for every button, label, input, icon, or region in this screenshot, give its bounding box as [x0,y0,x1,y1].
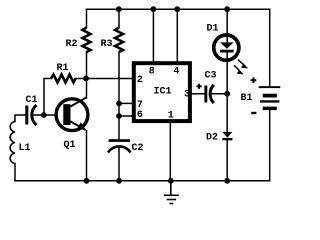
svg-text:C1: C1 [26,95,38,106]
wire Q1 emitter down [86,131,88,181]
node rail D2 [224,178,230,184]
wire node A up to R1 [44,79,51,116]
svg-text:3: 3 [184,90,190,101]
wire pin8 [152,9,154,61]
wire L1 bottom to rail corner [14,164,16,181]
wire C1 to node A [33,114,55,116]
wire R1 right to node B [76,78,132,80]
node top R3 [116,6,122,12]
resistor R1 [51,75,76,83]
resistor R3 [115,28,123,53]
svg-text:Q1: Q1 [64,140,76,151]
node pin7 [116,101,122,107]
node dots [41,6,230,183]
node B R1/R2/Q1 [83,76,89,82]
svg-text:C2: C2 [132,143,144,154]
wire pin4 [176,9,178,61]
node top D1 [224,6,230,12]
IC IC1 [134,63,190,121]
battery B1 [259,86,281,110]
svg-text:R2: R2 [66,39,78,50]
plus sign C3 [197,84,202,89]
svg-text:6: 6 [137,110,143,121]
svg-text:D2: D2 [206,133,218,144]
wire Q1 collector up [86,79,88,99]
node top pin4 [174,6,180,12]
wire R2 top [86,9,88,27]
svg-text:R1: R1 [57,63,69,74]
wire pin3 to C3 [192,93,205,95]
node rail Q1 [84,178,90,184]
wire C2 bottom [118,147,120,181]
wire D2 to rail [226,140,228,181]
svg-text:4: 4 [173,67,179,78]
LED D1 arrows [238,60,244,65]
svg-text:L1: L1 [19,143,31,154]
wire bottom rail [15,180,270,182]
svg-text:8: 8 [149,67,155,78]
svg-text:IC1: IC1 [154,87,172,98]
wire D1 top [226,9,228,43]
wire D1 bottom to node C [226,52,228,94]
minus sign battery [251,112,256,114]
wire C3 to node C [211,93,227,95]
node rail C2 [116,178,122,184]
plus sign battery [251,77,257,83]
resistor R2 [83,28,91,53]
wire pin7 [119,102,132,104]
svg-text:2: 2 [137,75,143,86]
svg-text:B1: B1 [241,93,253,104]
wire pin1 down [169,123,171,181]
inductor L1 [10,122,15,164]
wire R3 top [118,9,120,27]
wire right drop to battery top [269,9,271,86]
svg-text:1: 1 [168,111,174,122]
node rail gnd [168,178,174,184]
wire top rail [87,8,270,10]
svg-text:R3: R3 [101,39,113,50]
diode D2 [222,132,232,140]
capacitor C3 [204,85,213,103]
capacitor C2 [108,139,131,152]
LED D1 [214,35,249,74]
wire R3 bottom to C2 [118,52,120,139]
wire pin6 [119,115,132,117]
wire R2 bottom to node B [86,52,88,79]
wire left side L1 top [15,115,25,122]
wire node C to D2 [226,94,228,132]
node A C1/Q1 base [41,112,47,118]
svg-text:C3: C3 [205,71,217,82]
node pin6 [116,113,122,119]
node top pin8 [151,6,157,12]
transistor Q1 [56,97,88,130]
capacitor C1 [25,105,36,125]
ground [164,181,179,204]
svg-text:D1: D1 [207,24,219,35]
node C C3/D1/D2 [224,91,230,97]
wire battery bottom to rail [269,110,271,181]
